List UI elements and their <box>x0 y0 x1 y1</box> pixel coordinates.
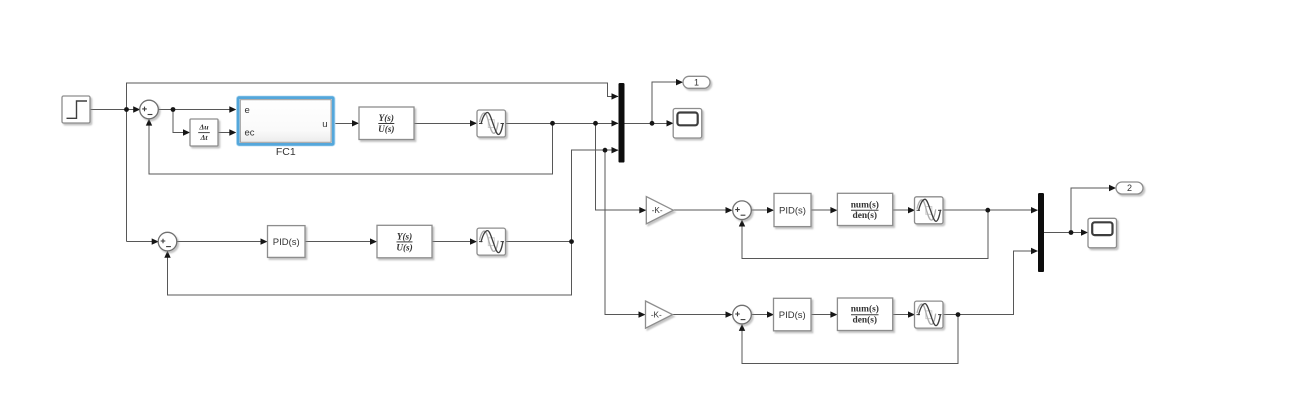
arrowhead into num/den 4 <box>830 311 837 317</box>
arrowhead into derivative <box>183 129 190 135</box>
svg-text:PID(s): PID(s) <box>273 237 300 248</box>
junction on delay1 output for gain1 <box>593 121 598 126</box>
svg-text:Y(s): Y(s) <box>397 232 412 242</box>
arrowhead into PID2 <box>261 238 268 244</box>
arrowhead into mux2 input 2 <box>1031 248 1038 254</box>
wire num/den 4 to transport delay 4 <box>893 314 914 316</box>
step source block <box>62 96 90 123</box>
fuzzy controller subsystem FC1 (selected, blue highlight) <box>237 97 335 159</box>
arrowhead into sum3 bottom <box>739 220 745 227</box>
transport delay 1 <box>477 110 506 137</box>
num/den transfer fcn 4 <box>837 298 892 331</box>
wire step to sum1 <box>90 109 139 111</box>
wire loop2 feedback to sum2 <box>168 242 572 295</box>
derivative block du/dt <box>190 119 218 146</box>
svg-text:U(s): U(s) <box>396 243 412 253</box>
arrowhead into sum2 <box>152 238 159 244</box>
arrowhead into out port 1 <box>676 79 683 85</box>
svg-text:Δu: Δu <box>198 122 209 131</box>
wire branch to derivative <box>173 110 189 133</box>
wire sum4 to PID4 <box>752 314 774 316</box>
wire PID2 to transfer fcn 2 <box>305 241 376 243</box>
wire loop4 feedback to sum4 <box>742 315 958 364</box>
junction on step output <box>124 107 129 112</box>
svg-text:U(s): U(s) <box>378 124 394 134</box>
svg-text:den(s): den(s) <box>853 210 877 221</box>
arrowhead into sum1 bottom <box>146 119 152 126</box>
svg-text:FC1: FC1 <box>276 146 296 158</box>
wire PID4 to num/den 4 <box>811 314 836 316</box>
wire PID3 to num/den 3 <box>811 209 836 211</box>
arrowhead into transfer fcn 1 <box>352 120 359 126</box>
transport delay 2 <box>477 228 506 255</box>
sum junction sum3 <box>733 201 752 220</box>
out port 2 <box>1116 182 1143 194</box>
arrowhead into gain1 <box>639 207 646 213</box>
mux2 <box>1038 193 1044 272</box>
arrowhead into sum4 bottom <box>739 324 745 331</box>
wire mux1 to scope1 <box>625 122 673 124</box>
junction on delay1 output for feedback <box>550 121 555 126</box>
svg-text:PID(s): PID(s) <box>779 310 806 321</box>
num/den transfer fcn 3 <box>837 193 892 225</box>
wire branch to gain1 <box>596 123 646 210</box>
wire gain1 to sum3 <box>673 209 731 211</box>
svg-text:num(s): num(s) <box>851 199 879 210</box>
scope2 <box>1088 218 1117 248</box>
svg-text:den(s): den(s) <box>853 315 877 326</box>
svg-text:ec: ec <box>245 128 255 139</box>
svg-text:Δt: Δt <box>199 133 208 142</box>
svg-text:u: u <box>322 119 327 130</box>
junction on sum1 output <box>171 107 176 112</box>
junction on mux1 input3 wire for gain2 <box>603 148 608 153</box>
PID controller 4 <box>774 298 812 331</box>
svg-text:PID(s): PID(s) <box>779 206 806 217</box>
wire derivative to FC1 port ec <box>219 132 235 134</box>
wire to out port 1 <box>652 82 682 123</box>
wire transport delay 3 to mux2 input 1 <box>941 209 1038 211</box>
wire sum3 to PID3 <box>752 209 774 211</box>
arrowhead into out port 2 <box>1109 185 1116 191</box>
wire transfer fcn to transport delay 1 <box>414 122 476 124</box>
sum junction sum2 <box>158 232 177 251</box>
arrowhead into mux1 input 2 <box>612 120 619 126</box>
transfer fcn 2 Y(s)/U(s) <box>377 225 432 257</box>
wire loop1 feedback to sum1 <box>149 120 553 174</box>
wire FC1 u to transfer fcn Y(s)/U(s) <box>334 122 359 124</box>
svg-text:1: 1 <box>694 78 699 88</box>
wire sum2 to PID2 <box>177 241 267 243</box>
junction on delay3 output <box>985 208 990 213</box>
wire transport delay 4 up to mux2 input 2 <box>941 251 1038 315</box>
wire transport delay 2 to junction <box>506 241 572 243</box>
svg-text:num(s): num(s) <box>851 304 879 315</box>
wire sum1 to FC1 port e <box>158 109 234 111</box>
arrowhead into scope1 <box>667 120 674 126</box>
arrowhead into sum2 bottom <box>164 251 170 258</box>
junction on mux1 output <box>650 121 655 126</box>
wire loop2 output up to mux1 input 3 <box>572 150 619 241</box>
gain2 -K- <box>646 301 673 328</box>
arrowhead into sum4 <box>726 311 733 317</box>
transport delay 4 <box>915 301 944 328</box>
PID controller 3 <box>774 193 811 226</box>
arrowhead into sum3 <box>726 207 733 213</box>
arrowhead into transport delay 4 <box>908 311 915 317</box>
arrowhead into transfer fcn 2 <box>370 238 377 244</box>
transport delay 3 <box>915 197 944 224</box>
wire transport delay 1 to mux1 input 2 <box>506 122 619 124</box>
wire to out port 2 <box>1071 188 1115 233</box>
arrowhead into PID3 <box>767 207 774 213</box>
scope1 <box>673 109 702 139</box>
arrowhead into gain2 <box>639 311 646 317</box>
PID controller 2 <box>268 226 306 258</box>
arrowhead into FC1 ec <box>229 129 236 135</box>
sum junction sum1 <box>140 100 159 119</box>
mux1 <box>619 83 625 163</box>
arrowhead into num/den 3 <box>830 207 837 213</box>
arrowhead into FC1 e <box>229 106 236 112</box>
arrowhead into scope2 <box>1081 229 1088 235</box>
arrowhead into transport delay 3 <box>908 207 915 213</box>
svg-text:2: 2 <box>1127 183 1132 193</box>
gain1 -K- <box>646 197 673 224</box>
wire branch to gain2 <box>605 150 645 314</box>
arrowhead into mux1 input 3 <box>612 147 619 153</box>
wire mux2 to scope2 <box>1044 232 1087 234</box>
svg-text:e: e <box>245 105 250 116</box>
arrowhead into transport delay 1 <box>470 120 477 126</box>
transfer fcn 1 Y(s)/U(s) <box>359 107 414 140</box>
wire num/den 3 to transport delay 3 <box>893 209 914 211</box>
junction on delay4 output <box>956 312 961 317</box>
arrowhead into mux1 input 1 <box>612 93 619 99</box>
arrowhead into mux2 input 1 <box>1031 207 1038 213</box>
wire reference into sum2 <box>127 241 158 243</box>
arrowhead into sum1 <box>133 106 140 112</box>
arrowhead into transport delay 2 <box>470 238 477 244</box>
out port 1 <box>683 76 710 88</box>
wire gain2 to sum4 <box>673 314 732 316</box>
svg-text:Y(s): Y(s) <box>379 113 394 123</box>
junction on mux2 output <box>1069 230 1074 235</box>
sum junction sum4 <box>733 305 752 324</box>
wire loop3 feedback to sum3 <box>742 210 988 258</box>
wire transfer fcn 2 to transport delay 2 <box>432 241 476 243</box>
arrowhead into PID4 <box>767 311 774 317</box>
wire reference branch top to mux1 input 1 and down to sum2 <box>127 83 619 241</box>
junction on delay2 output <box>569 239 574 244</box>
